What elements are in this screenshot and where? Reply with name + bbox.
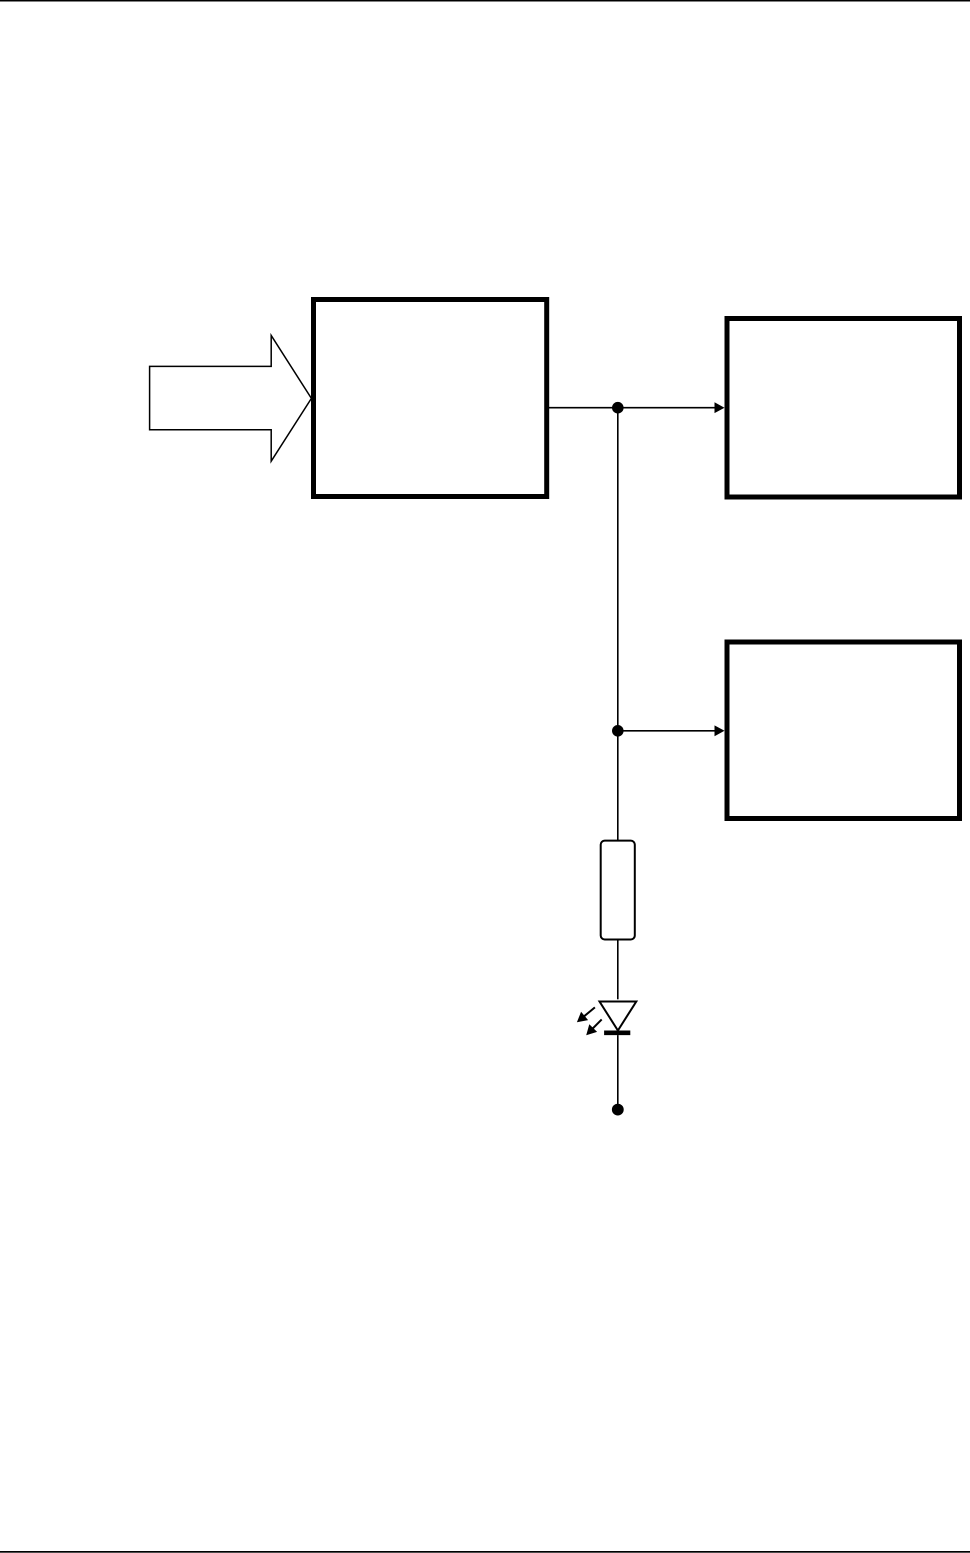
- node A junction dot: [612, 402, 624, 414]
- resistor R1: [601, 841, 635, 940]
- input block arrow: [150, 336, 312, 462]
- wire node A to B2: [618, 407, 715, 409]
- wire resistor to LED: [617, 941, 619, 1000]
- LED D1 cathode bar: [604, 1031, 630, 1036]
- LED light arrow 1 head: [577, 1012, 588, 1023]
- LED light arrow 2 shaft: [592, 1019, 602, 1029]
- block B1: [314, 300, 547, 497]
- terminal node dot: [612, 1104, 624, 1116]
- node B junction dot: [612, 725, 624, 737]
- wire LED to terminal: [617, 1035, 619, 1104]
- header rule: [0, 0, 970, 2]
- block B3: [727, 642, 960, 819]
- wire node B down to resistor: [617, 731, 619, 840]
- LED light arrow 2 head: [586, 1024, 597, 1035]
- arrowhead into B2: [715, 402, 725, 413]
- LED light arrow 1 shaft: [584, 1007, 595, 1016]
- LED D1 triangle: [600, 1002, 637, 1031]
- arrowhead into B3: [715, 725, 725, 736]
- wire B1 to node A: [549, 407, 618, 409]
- block B2: [727, 319, 960, 498]
- footer rule: [0, 1551, 970, 1553]
- wire node A down to node B: [617, 408, 619, 731]
- wire node B to B3: [618, 730, 715, 732]
